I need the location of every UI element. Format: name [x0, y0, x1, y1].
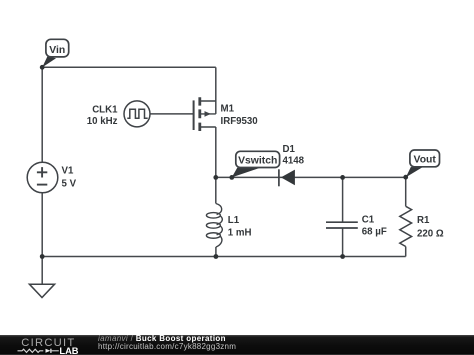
svg-text:Vswitch: Vswitch	[238, 155, 277, 166]
node L1 bottom junction	[214, 254, 219, 259]
ground	[29, 284, 54, 297]
node ground junction	[40, 254, 45, 259]
wire: Vswitch node to Vout node (switch rail)	[216, 176, 406, 178]
svg-text:Vin: Vin	[49, 45, 65, 56]
inductor L1	[206, 204, 251, 248]
node Vswitch flag anchor	[229, 175, 234, 180]
wire: M1 drain down to Vswitch node	[215, 127, 217, 177]
node Vin junction	[40, 65, 45, 70]
capacitor C1	[326, 214, 387, 237]
svg-text:5 V: 5 V	[62, 179, 77, 190]
diode D1	[279, 144, 305, 186]
svg-text:L1: L1	[228, 215, 240, 226]
clock source CLK1	[87, 101, 150, 127]
svg-text:LAB: LAB	[59, 346, 78, 355]
svg-text:CLK1: CLK1	[92, 104, 118, 115]
svg-text:M1: M1	[221, 103, 235, 114]
svg-text:R1: R1	[417, 215, 430, 226]
voltage source V1	[27, 162, 76, 193]
svg-text:Vout: Vout	[414, 154, 437, 165]
svg-text:C1: C1	[362, 214, 375, 225]
wire: C1 top lead	[342, 177, 344, 222]
svg-text:V1: V1	[62, 166, 74, 177]
svg-text:4148: 4148	[283, 155, 305, 166]
svg-text:D1: D1	[283, 144, 296, 155]
footer bar	[0, 335, 474, 355]
wire: V1 bottom to ground junction	[41, 193, 43, 257]
wire: CLK1 to M1 gate	[150, 113, 194, 115]
wire: L1 bottom to bottom rail	[215, 247, 217, 257]
wire: M1 top rail (source/body)	[215, 67, 217, 114]
node Vin flag	[42, 39, 68, 67]
node C1 bottom junction	[340, 254, 345, 259]
wire: R1 bottom lead	[405, 247, 407, 257]
svg-text:10 kHz: 10 kHz	[87, 116, 118, 127]
node Vswitch flag	[232, 151, 280, 177]
wire: bottom rail	[42, 256, 406, 258]
wire: C1 bottom lead	[342, 228, 344, 257]
transistor M1 (PMOS IRF9530)	[194, 97, 258, 131]
node Vout flag	[406, 150, 440, 177]
wire: Vswitch rail down to L1 top	[215, 177, 217, 203]
wire: R1 top lead	[405, 177, 407, 206]
CircuitLab logo	[0, 335, 95, 355]
wire: Vin node to M1 drain rail (top horizontal)	[42, 66, 216, 68]
credit line 2	[98, 343, 236, 351]
wire: Vin node down to V1 top	[41, 67, 43, 162]
svg-text:IRF9530: IRF9530	[221, 116, 258, 127]
svg-text:220 Ω: 220 Ω	[417, 228, 444, 239]
resistor R1	[400, 206, 444, 246]
node Vout junction	[403, 175, 408, 180]
svg-text:1 mH: 1 mH	[228, 228, 252, 239]
node C1 top junction	[340, 175, 345, 180]
credit line 1	[98, 335, 226, 343]
node Vswitch rail junction	[213, 175, 218, 180]
node dots (junctions)	[40, 65, 408, 259]
wire: ground stub	[41, 257, 43, 285]
svg-text:68 µF: 68 µF	[362, 227, 387, 238]
